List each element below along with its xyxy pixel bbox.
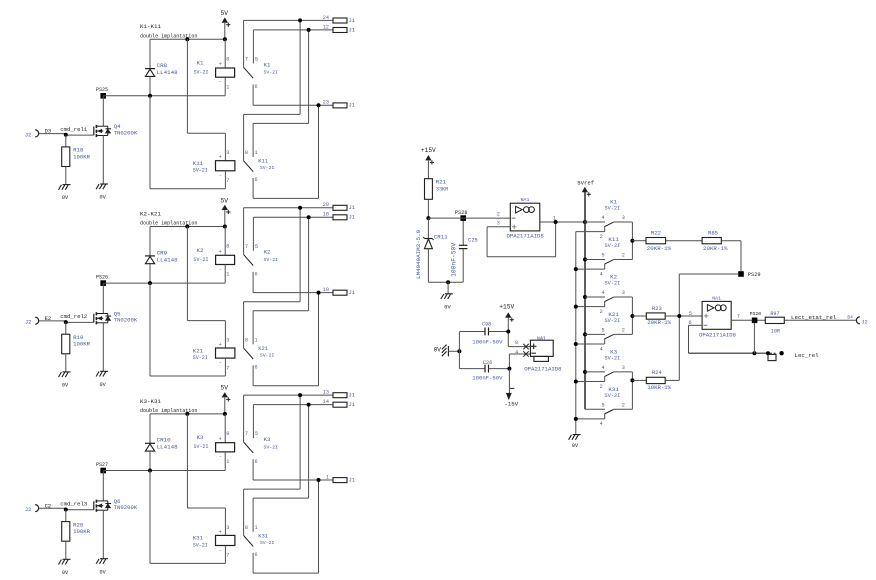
svg-text:cmd_rel3: cmd_rel3 <box>60 501 88 508</box>
svg-text:3: 3 <box>497 221 500 227</box>
svg-text:20KR-1%: 20KR-1% <box>703 245 728 252</box>
svg-text:5V: 5V <box>221 197 229 204</box>
wire 5V rail <box>150 226 225 228</box>
svg-text:4: 4 <box>601 215 604 221</box>
svg-text:CR10: CR10 <box>157 437 171 444</box>
wire gate <box>39 507 66 509</box>
svg-text:4: 4 <box>600 421 603 427</box>
svg-text:NA1: NA1 <box>712 295 721 301</box>
svg-text:+: + <box>219 249 222 255</box>
relay driver block K2-K21 <box>25 197 355 388</box>
relay contact K1 SV-2I (readback) <box>576 199 633 240</box>
wire contact pair 1 <box>631 222 633 260</box>
wire contact pair 3 <box>631 372 633 409</box>
svg-text:6: 6 <box>255 552 258 558</box>
relay contact K2 SV-2I (readback) <box>574 274 633 315</box>
svg-text:2: 2 <box>622 253 625 259</box>
svg-text:K3: K3 <box>610 349 617 356</box>
transistor Q5 TN0200K <box>102 283 104 313</box>
relay contact K3 SV-2I (readback) <box>574 349 633 390</box>
svg-text:K2: K2 <box>610 274 617 281</box>
svg-text:K11: K11 <box>193 160 204 167</box>
svg-text:4: 4 <box>515 350 518 356</box>
wire PS node <box>103 282 225 284</box>
svg-text:4: 4 <box>601 365 604 371</box>
svg-text:J2: J2 <box>861 319 868 326</box>
relay contact K11 SV-2I <box>243 114 245 160</box>
svg-text:100KR: 100KR <box>73 341 91 348</box>
ground <box>63 371 71 373</box>
svg-text:5Vref: 5Vref <box>577 180 595 187</box>
svg-text:J1: J1 <box>349 204 356 211</box>
svg-text:8: 8 <box>245 150 248 156</box>
relay coil K2 SV-2I <box>224 227 226 256</box>
wire to J1 pin 13 <box>244 394 333 396</box>
svg-text:cmd_rel1: cmd_rel1 <box>60 126 88 133</box>
wire to J1 pin 18 <box>253 216 333 218</box>
ground <box>100 558 108 560</box>
relay contact K1 SV-2I <box>243 20 245 67</box>
relay contact K2 SV-2I <box>243 208 245 255</box>
svg-text:24: 24 <box>323 15 329 21</box>
wire to J1 pin 24 <box>244 19 333 21</box>
svg-text:1: 1 <box>255 525 258 531</box>
ground <box>100 183 108 185</box>
svg-text:SV-2I: SV-2I <box>264 70 279 76</box>
svg-text:K31: K31 <box>608 386 619 393</box>
wire contact loop <box>244 113 301 115</box>
relay coil K1 SV-2I <box>224 39 226 68</box>
wire contact loop <box>244 301 301 303</box>
wire contact pair 2 <box>631 297 633 334</box>
svg-text:-: - <box>219 454 222 460</box>
svg-text:+: + <box>219 436 222 442</box>
svg-text:K2-K21: K2-K21 <box>140 211 161 218</box>
junction <box>185 37 189 41</box>
svg-text:7: 7 <box>245 431 248 437</box>
svg-text:14: 14 <box>323 399 329 405</box>
svg-text:2: 2 <box>600 309 603 315</box>
svg-text:J2: J2 <box>25 319 32 326</box>
resistor R18 100KR <box>65 135 67 147</box>
connector J1 <box>333 478 347 483</box>
svg-text:2: 2 <box>622 327 625 333</box>
svg-text:NA1: NA1 <box>537 336 546 342</box>
op-amp NA1 power pins <box>508 346 530 348</box>
svg-text:5: 5 <box>689 311 692 317</box>
svg-text:6: 6 <box>255 459 258 465</box>
svg-text:SV-2I: SV-2I <box>605 281 621 287</box>
svg-text:100KR: 100KR <box>73 153 91 160</box>
svg-text:5: 5 <box>601 327 604 333</box>
decoupling and supply section <box>434 303 563 407</box>
wire to lower coil <box>149 283 151 376</box>
wire 0V rail <box>428 281 463 283</box>
svg-text:C25: C25 <box>468 238 478 244</box>
svg-text:LL4148: LL4148 <box>157 256 178 263</box>
svg-text:6: 6 <box>255 365 258 371</box>
svg-text:PS20: PS20 <box>750 311 762 317</box>
svg-text:K1: K1 <box>197 60 204 67</box>
relay contact K31 SV-2I <box>243 489 245 535</box>
wire PS29 to summing node <box>679 273 738 275</box>
wire pin6 feedback <box>689 324 703 326</box>
diode CR8 LL4148 <box>149 39 151 68</box>
wire to J1 pin 14 <box>253 404 333 406</box>
svg-text:7: 7 <box>245 57 248 63</box>
wire to lower coil <box>149 96 151 189</box>
svg-text:19: 19 <box>323 287 329 293</box>
svg-text:0V: 0V <box>62 383 69 389</box>
connector J1 <box>333 290 347 295</box>
svg-text:J1: J1 <box>349 17 356 24</box>
svg-text:8: 8 <box>226 56 229 62</box>
svg-text:SV-2I: SV-2I <box>260 353 275 359</box>
connector J1 <box>333 215 347 220</box>
svg-text:Lect_etat_rel: Lect_etat_rel <box>791 314 837 321</box>
svg-text:SV-2I: SV-2I <box>260 165 275 171</box>
connector J1 <box>333 28 347 33</box>
port Lec_rel <box>766 351 770 355</box>
svg-text:5V: 5V <box>221 385 229 392</box>
svg-text:+: + <box>219 62 222 68</box>
svg-text:+: + <box>219 155 222 161</box>
wire 5V rail <box>150 413 225 415</box>
svg-text:SV-2I: SV-2I <box>193 355 208 361</box>
node PS28 <box>426 216 430 220</box>
svg-text:3: 3 <box>226 525 229 531</box>
svg-text:0V: 0V <box>572 443 579 449</box>
svg-text:SV-2I: SV-2I <box>193 168 208 174</box>
wire contact loop <box>244 488 301 490</box>
svg-text:K2: K2 <box>264 249 271 256</box>
svg-text:3: 3 <box>622 365 625 371</box>
svg-text:100nF-50V: 100nF-50V <box>472 338 503 345</box>
svg-text:PS26: PS26 <box>96 275 108 281</box>
svg-text:PS25: PS25 <box>96 87 108 93</box>
wire gate <box>39 320 66 322</box>
svg-text:SV-2I: SV-2I <box>605 206 621 212</box>
svg-text:LL4148: LL4148 <box>157 444 178 451</box>
svg-text:+: + <box>219 529 222 535</box>
reference generator and readback section <box>415 147 605 449</box>
resistor R85 20KR-1% <box>702 238 721 244</box>
power -15V <box>508 369 510 394</box>
svg-text:0V: 0V <box>434 347 442 354</box>
svg-text:J2: J2 <box>25 131 32 138</box>
svg-text:0V: 0V <box>100 382 107 388</box>
svg-text:K31: K31 <box>258 532 269 539</box>
testpoint PS29 <box>738 271 744 277</box>
svg-text:OPA2171AID8: OPA2171AID8 <box>524 366 562 373</box>
svg-text:K11: K11 <box>258 158 269 165</box>
svg-text:SV-2I: SV-2I <box>605 318 621 324</box>
svg-text:LM4040AIM3-5.0: LM4040AIM3-5.0 <box>415 229 422 278</box>
svg-text:3: 3 <box>226 150 229 156</box>
svg-text:10KR-1%: 10KR-1% <box>647 384 671 391</box>
svg-text:R97: R97 <box>770 311 779 317</box>
svg-text:-: - <box>219 79 222 85</box>
svg-text:cmd_rel2: cmd_rel2 <box>60 313 87 320</box>
svg-text:SV-2I: SV-2I <box>193 542 208 548</box>
transistor Q4 TN0200K <box>102 96 104 126</box>
relay contact K31 SV-2I (readback) <box>574 386 633 427</box>
testpoint PS20 <box>752 318 758 324</box>
svg-text:PS28: PS28 <box>455 210 468 216</box>
junction <box>185 412 189 416</box>
svg-text:4: 4 <box>601 290 604 296</box>
svg-text:K3: K3 <box>197 434 204 441</box>
capacitor C26 100nF-50V <box>508 354 510 369</box>
relay driver block K3-K31 <box>25 385 355 576</box>
svg-text:J1: J1 <box>349 476 356 483</box>
svg-text:Lec_rel: Lec_rel <box>795 352 820 359</box>
wire to J1 pin 23 <box>253 104 333 106</box>
wire to J1 pin 20 <box>244 207 333 209</box>
svg-text:7: 7 <box>226 365 229 371</box>
svg-text:18: 18 <box>323 212 329 218</box>
svg-text:3: 3 <box>226 337 229 343</box>
svg-text:R21: R21 <box>436 179 447 186</box>
connector J1 <box>333 402 347 407</box>
wire 5Vref bus <box>584 192 586 409</box>
relay contact K21 SV-2I (readback) <box>574 311 633 352</box>
svg-text:SV-2I: SV-2I <box>194 70 209 76</box>
svg-text:8: 8 <box>515 340 518 346</box>
svg-text:7: 7 <box>226 178 229 184</box>
svg-text:K21: K21 <box>193 347 204 354</box>
svg-text:NA1: NA1 <box>521 197 530 203</box>
svg-text:TN0200K: TN0200K <box>114 317 138 324</box>
svg-text:J1: J1 <box>349 392 356 399</box>
svg-text:+15V: +15V <box>499 303 514 310</box>
svg-text:SV-2I: SV-2I <box>194 444 209 450</box>
wire PS node <box>103 470 225 472</box>
wire gate <box>39 133 66 135</box>
svg-text:R85: R85 <box>708 229 718 236</box>
svg-text:1: 1 <box>226 84 229 90</box>
diode CR10 LL4148 <box>149 414 151 443</box>
svg-text:6: 6 <box>255 272 258 278</box>
svg-text:1: 1 <box>255 337 258 343</box>
svg-text:0V: 0V <box>100 195 107 201</box>
svg-text:SV-2I: SV-2I <box>264 444 279 450</box>
svg-text:J1: J1 <box>349 289 356 296</box>
svg-text:+: + <box>219 342 222 348</box>
svg-text:-: - <box>219 266 222 272</box>
svg-text:CR11: CR11 <box>434 234 448 241</box>
svg-text:1: 1 <box>326 474 329 480</box>
svg-text:K11: K11 <box>608 236 619 243</box>
resistor R20 100KR <box>65 510 67 522</box>
wire PS28 to op-amp <box>428 217 510 219</box>
relay contact K3 SV-2I <box>243 395 245 442</box>
svg-text:0V: 0V <box>100 569 107 575</box>
svg-text:SV-2I: SV-2I <box>260 540 275 546</box>
svg-text:7: 7 <box>245 244 248 250</box>
svg-text:20: 20 <box>323 202 329 208</box>
svg-text:5: 5 <box>255 244 258 250</box>
relay coil K31 SV-2I <box>186 414 188 508</box>
svg-text:13: 13 <box>323 390 329 396</box>
svg-text:0V: 0V <box>444 304 451 310</box>
wire to PS29 <box>740 241 742 272</box>
relay contact K21 SV-2I <box>243 302 245 348</box>
svg-text:PS29: PS29 <box>748 272 761 278</box>
svg-text:0V: 0V <box>62 570 69 576</box>
svg-text:TN0200K: TN0200K <box>114 504 138 511</box>
zener CR11 LM4040AIM3-5.0 <box>427 218 429 238</box>
connector J1 <box>333 393 347 398</box>
wire to lower coil <box>149 471 151 564</box>
svg-text:PS27: PS27 <box>96 462 108 468</box>
connector J1 <box>333 205 347 210</box>
connector J1 <box>333 18 347 23</box>
svg-text:TN0200K: TN0200K <box>114 129 138 136</box>
resistor R24 10KR-1% <box>632 379 646 381</box>
svg-text:8: 8 <box>226 244 229 250</box>
ground <box>445 293 453 295</box>
svg-text:+15V: +15V <box>421 147 436 154</box>
svg-text:R22: R22 <box>651 229 661 236</box>
svg-text:8: 8 <box>245 337 248 343</box>
wire PS node <box>103 95 225 97</box>
op-amp NA1 OPA2171AID8 buffer <box>510 203 540 231</box>
resistor R22 20KR-1% <box>632 240 646 242</box>
svg-text:-: - <box>219 360 222 366</box>
wire 0V rail (contacts) <box>575 232 577 435</box>
transistor Q6 TN0200K <box>102 471 104 501</box>
svg-text:J1: J1 <box>349 102 356 109</box>
resistor R19 100KR <box>65 322 67 334</box>
capacitor C25 100nF-50V <box>462 221 464 245</box>
svg-text:7: 7 <box>737 314 740 320</box>
ground <box>100 370 108 372</box>
svg-text:CR8: CR8 <box>157 62 168 69</box>
svg-text:1: 1 <box>226 459 229 465</box>
svg-text:20KR-1%: 20KR-1% <box>647 319 671 326</box>
resistor R21 33KR <box>425 179 433 200</box>
wire to J1 pin 19 <box>253 292 333 294</box>
ground <box>573 434 581 436</box>
svg-text:K3-K31: K3-K31 <box>140 398 161 405</box>
svg-text:6: 6 <box>255 84 258 90</box>
relay driver block K1-K11 <box>25 10 355 201</box>
op-amp NA1 OPA2171AID8 readback <box>689 295 741 338</box>
svg-text:10R: 10R <box>771 328 780 334</box>
svg-text:J1: J1 <box>349 26 356 33</box>
svg-text:8: 8 <box>245 525 248 531</box>
svg-text:SV-2I: SV-2I <box>194 257 209 263</box>
relay coil K11 SV-2I <box>186 39 188 133</box>
svg-text:K21: K21 <box>608 311 619 318</box>
svg-text:5: 5 <box>255 431 258 437</box>
svg-text:K1: K1 <box>610 199 617 206</box>
svg-text:SV-2I: SV-2I <box>605 356 621 362</box>
svg-text:100nF-50V: 100nF-50V <box>451 243 458 277</box>
wire to J1 pin 12 <box>253 29 333 31</box>
svg-text:0V: 0V <box>62 195 69 201</box>
connector J1 <box>333 103 347 108</box>
svg-text:2: 2 <box>600 234 603 240</box>
svg-text:3: 3 <box>622 215 625 221</box>
svg-text:1: 1 <box>226 272 229 278</box>
svg-text:K1-K11: K1-K11 <box>140 23 161 30</box>
svg-text:7: 7 <box>226 553 229 559</box>
svg-text:4: 4 <box>600 346 603 352</box>
svg-text:8: 8 <box>226 431 229 437</box>
svg-text:20KR-1%: 20KR-1% <box>647 245 672 252</box>
svg-text:OPA2171AID8: OPA2171AID8 <box>507 232 545 239</box>
svg-text:12: 12 <box>323 24 329 30</box>
svg-text:33KR: 33KR <box>436 187 448 193</box>
svg-text:SV-2I: SV-2I <box>605 393 621 399</box>
svg-text:SV-2I: SV-2I <box>264 257 279 263</box>
ground <box>63 184 71 186</box>
svg-text:J1: J1 <box>349 401 356 408</box>
svg-text:J2: J2 <box>25 506 32 513</box>
svg-text:5: 5 <box>601 253 604 259</box>
svg-text:J1: J1 <box>349 214 356 221</box>
svg-text:K2: K2 <box>197 247 204 254</box>
diode CR9 LL4148 <box>149 227 151 256</box>
svg-text:R23: R23 <box>652 305 662 312</box>
svg-text:5: 5 <box>255 57 258 63</box>
svg-text:C26: C26 <box>483 360 493 366</box>
svg-text:K1: K1 <box>264 61 271 68</box>
svg-text:100nF-50V: 100nF-50V <box>472 375 503 382</box>
svg-text:5V: 5V <box>221 10 229 17</box>
svg-text:2: 2 <box>622 402 625 408</box>
capacitor C98 100nF-50V <box>459 331 485 333</box>
svg-text:1: 1 <box>255 150 258 156</box>
wire to J1 pin 1 <box>253 479 333 481</box>
svg-text:CR9: CR9 <box>157 249 168 256</box>
svg-text:K21: K21 <box>258 345 269 352</box>
wire output <box>731 319 765 321</box>
relay coil K3 SV-2I <box>224 414 226 443</box>
svg-text:5: 5 <box>601 402 604 408</box>
wire 5V rail <box>150 38 225 40</box>
svg-text:2: 2 <box>600 384 603 390</box>
svg-text:100KR: 100KR <box>73 528 91 535</box>
svg-text:LL4148: LL4148 <box>157 69 178 76</box>
wire Lect_etat_rel <box>784 319 856 321</box>
svg-text:K31: K31 <box>193 535 204 542</box>
resistor R97 10R <box>765 317 784 323</box>
svg-text:6: 6 <box>255 177 258 183</box>
resistor R23 20KR-1% <box>632 315 646 317</box>
svg-text:C98: C98 <box>482 321 491 327</box>
junction <box>185 225 189 229</box>
svg-text:B4: B4 <box>847 315 853 321</box>
svg-text:R24: R24 <box>652 369 663 376</box>
svg-text:-: - <box>219 173 222 179</box>
wire pin3 feedback <box>487 226 510 228</box>
svg-text:-: - <box>219 547 222 553</box>
svg-text:3: 3 <box>622 290 625 296</box>
svg-text:SV-2I: SV-2I <box>605 243 621 249</box>
svg-text:23: 23 <box>323 100 329 106</box>
svg-text:2: 2 <box>497 211 500 217</box>
ground <box>63 558 71 560</box>
relay contact K11 SV-2I (readback) <box>574 236 633 277</box>
svg-text:K3: K3 <box>264 436 271 443</box>
svg-text:4: 4 <box>600 271 603 277</box>
relay coil K21 SV-2I <box>186 227 188 321</box>
svg-text:-15V: -15V <box>504 401 518 408</box>
svg-text:OPA2171AID8: OPA2171AID8 <box>699 332 736 339</box>
